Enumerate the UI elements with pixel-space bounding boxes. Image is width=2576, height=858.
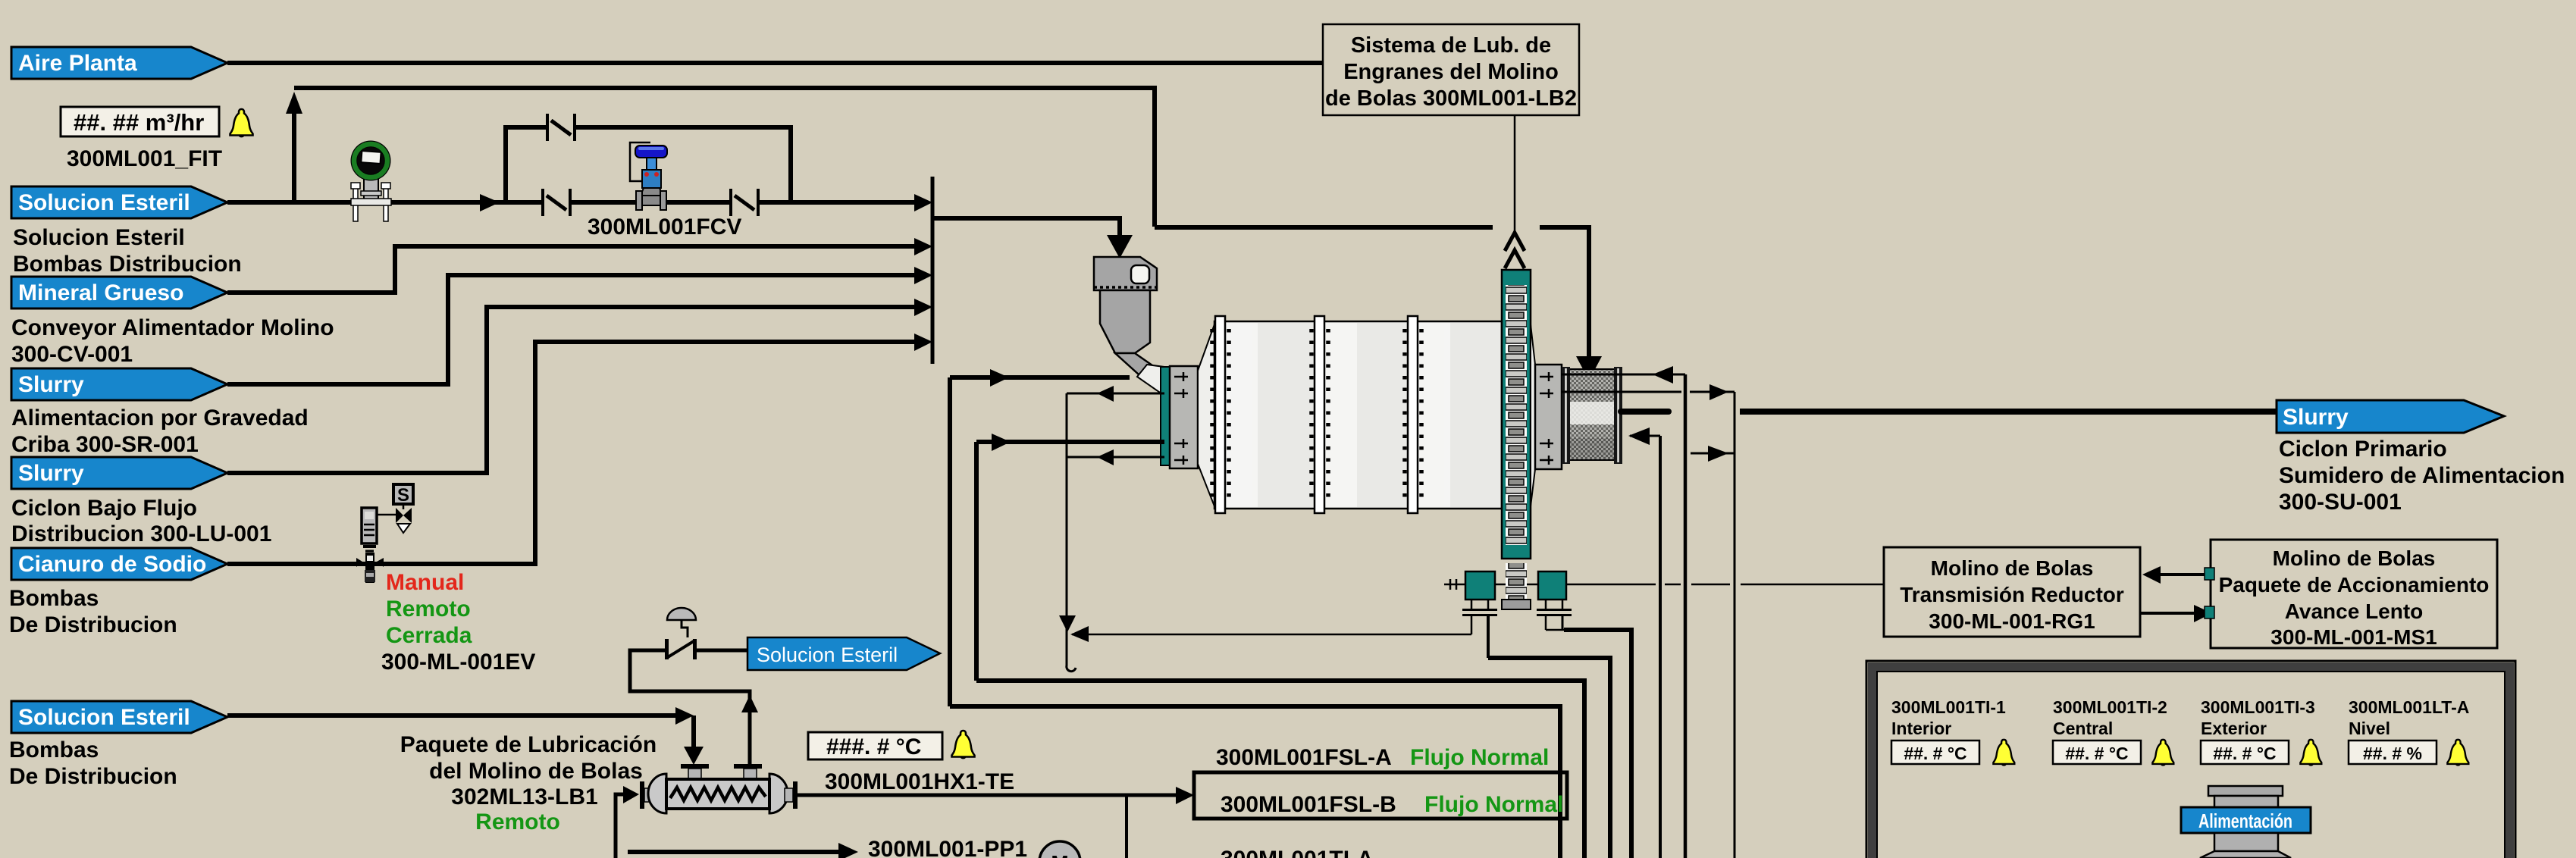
- feed line y498: [950, 375, 1130, 380]
- alarm bell HX1: [952, 731, 975, 759]
- svg-text:de Bolas 300ML001-LB2: de Bolas 300ML001-LB2: [1325, 86, 1577, 111]
- drain arrow down: [1059, 615, 1076, 632]
- arrow RG1 to MS1: [2140, 612, 2194, 615]
- svg-text:Engranes del Molino: Engranes del Molino: [1343, 60, 1559, 84]
- svg-text:300-SU-001: 300-SU-001: [2279, 490, 2402, 515]
- feed line y583: [976, 440, 1164, 444]
- heat exchanger 302ML13-LB1: [640, 764, 798, 813]
- return drop x1407: [1066, 393, 1068, 662]
- svg-text:##. # °C: ##. # °C: [1904, 744, 1966, 763]
- svg-text:Central: Central: [2053, 719, 2113, 738]
- alimentacion trunnion graphic: [2181, 786, 2311, 858]
- manual valve: [665, 608, 697, 659]
- isolation tick main 2: [729, 189, 760, 216]
- svg-text:300ML001_FIT: 300ML001_FIT: [67, 146, 222, 171]
- box RG1: [1884, 547, 2140, 637]
- alarm bell FIT: [230, 109, 253, 137]
- svg-text:Transmisión Reductor: Transmisión Reductor: [1900, 583, 2124, 606]
- svg-text:300-ML-001-MS1: 300-ML-001-MS1: [2270, 625, 2437, 649]
- svg-text:Criba 300-SR-001: Criba 300-SR-001: [11, 432, 199, 457]
- svg-text:Ciclon Primario: Ciclon Primario: [2279, 437, 2447, 462]
- pinion gear: [1502, 563, 1531, 610]
- svg-text:Bombas Distribucion: Bombas Distribucion: [13, 252, 242, 277]
- svg-text:300-ML-001EV: 300-ML-001EV: [381, 650, 535, 675]
- HX outlet loop: [630, 650, 750, 768]
- valve outlet pipe: [696, 649, 747, 653]
- svg-text:Cianuro de Sodio: Cianuro de Sodio: [18, 552, 206, 577]
- svg-text:Paquete de Accionamiento: Paquete de Accionamiento: [2219, 573, 2490, 597]
- svg-text:###. # °C: ###. # °C: [826, 734, 921, 759]
- box MS1: [2211, 540, 2497, 649]
- svg-text:De Distribucion: De Distribucion: [9, 612, 177, 637]
- banner Aire Planta: [11, 47, 227, 79]
- arrow down into trunnion: [1576, 356, 1602, 380]
- svg-text:300ML001TI-1: 300ML001TI-1: [1891, 697, 2006, 717]
- pipe y300 to gear lube: [1155, 225, 1493, 230]
- svg-text:Solucion Esteril: Solucion Esteril: [13, 225, 185, 250]
- feed hopper: [1094, 257, 1164, 396]
- return line y603: [1067, 456, 1164, 459]
- svg-text:S: S: [397, 485, 409, 506]
- mill shell: [1214, 321, 1502, 509]
- pipe y116 header branch: [294, 88, 1155, 227]
- svg-text:Distribucion 300-LU-001: Distribucion 300-LU-001: [11, 521, 271, 546]
- ring gear: [1502, 270, 1531, 559]
- feed pipe to hopper y288: [934, 218, 1120, 236]
- pipe Solucion Esteril main y267: [227, 200, 916, 205]
- label Solucion Esteril lines: [9, 225, 334, 789]
- FSL-B loop: [1194, 772, 1567, 819]
- discharge trommel: [1562, 367, 1622, 464]
- svg-text:Sistema de Lub. de: Sistema de Lub. de: [1351, 33, 1551, 58]
- teal nubs MS1: [2205, 568, 2214, 580]
- banner Solucion Esteril mini: [747, 637, 940, 670]
- pipe Slurry 2: [227, 307, 916, 473]
- svg-text:300ML001HX1-TE: 300ML001HX1-TE: [825, 769, 1014, 794]
- pipe Cianuro de Sodio: [227, 342, 916, 564]
- branch y598: [1691, 452, 1735, 455]
- svg-text:Nivel: Nivel: [2349, 719, 2390, 738]
- flow transmitter instrument: [351, 141, 392, 222]
- svg-text:300-CV-001: 300-CV-001: [11, 342, 133, 367]
- flow arrow on main line: [480, 194, 500, 211]
- motor M: [1039, 841, 1080, 858]
- discharge head: [1531, 324, 1562, 506]
- banner Solucion Esteril: [11, 186, 227, 218]
- svg-text:Remoto: Remoto: [475, 809, 560, 835]
- svg-text:Mineral Grueso: Mineral Grueso: [18, 280, 183, 305]
- return y575: [1630, 435, 1660, 437]
- svg-text:300ML001FSL-A: 300ML001FSL-A: [1216, 745, 1392, 770]
- svg-text:##. ## m³/hr: ##. ## m³/hr: [74, 109, 204, 136]
- svg-text:Remoto: Remoto: [386, 597, 471, 622]
- gearbox right: [1538, 571, 1566, 600]
- svg-text:del Molino de Bolas: del Molino de Bolas: [429, 759, 643, 784]
- svg-text:Paquete de Lubricación: Paquete de Lubricación: [400, 732, 657, 757]
- banner Solucion Esteril 2: [11, 701, 227, 733]
- svg-text:##. # %: ##. # %: [2363, 744, 2422, 763]
- EV status texts: [381, 570, 535, 675]
- svg-text:Solucion Esteril: Solucion Esteril: [757, 643, 898, 666]
- TI-3 group: [2201, 697, 2321, 766]
- slurry destination labels: [2279, 437, 2565, 515]
- banner Slurry 1: [11, 368, 227, 400]
- svg-text:Bombas: Bombas: [9, 737, 99, 762]
- EV valve body: [356, 546, 384, 583]
- svg-text:300ML001FSL-B: 300ML001FSL-B: [1221, 792, 1396, 817]
- TI-1 group: [1891, 697, 2014, 766]
- value box 300ML001_FIT: [61, 107, 219, 136]
- svg-text:Cerrada: Cerrada: [386, 623, 472, 648]
- pump line: [628, 850, 840, 854]
- svg-text:300ML001-PP1: 300ML001-PP1: [868, 837, 1027, 858]
- mill feed head: [1170, 366, 1198, 468]
- supply riser x1288: [974, 442, 979, 681]
- svg-text:Bombas: Bombas: [9, 586, 99, 611]
- svg-text:302ML13-LB1: 302ML13-LB1: [451, 784, 597, 809]
- svg-text:##. # °C: ##. # °C: [2213, 744, 2276, 763]
- run y898: [976, 681, 1584, 858]
- mill flange 1: [1208, 316, 1229, 513]
- banner Slurry right: [2277, 400, 2504, 433]
- svg-text:Exterior: Exterior: [2201, 719, 2267, 738]
- svg-text:Aire Planta: Aire Planta: [18, 51, 137, 76]
- riser x388 with up arrow: [292, 110, 296, 202]
- arrow MS1 to RG1: [2159, 573, 2211, 576]
- lube signal line: [1514, 115, 1516, 230]
- drop x2288: [1734, 392, 1736, 858]
- svg-text:Molino de Bolas: Molino de Bolas: [1931, 556, 2094, 580]
- svg-text:Molino de Bolas: Molino de Bolas: [2273, 546, 2436, 570]
- svg-text:Avance Lento: Avance Lento: [2285, 600, 2424, 623]
- mill feed cone: [1198, 324, 1214, 506]
- couplings: [1462, 600, 1572, 615]
- pipe to FSL-B: [798, 794, 1177, 797]
- coupling drain line y837: [1072, 634, 1471, 636]
- slurry product line y543: [1621, 409, 1669, 415]
- svg-text:Slurry: Slurry: [18, 372, 84, 397]
- svg-text:Flujo Normal: Flujo Normal: [1410, 745, 1549, 770]
- svg-text:Slurry: Slurry: [18, 461, 84, 486]
- svg-text:Sumidero de Alimentacion: Sumidero de Alimentacion: [2279, 463, 2565, 488]
- drop x2223: [1684, 374, 1688, 858]
- return y494: [1562, 374, 1685, 376]
- pinion overlay: [1502, 563, 1531, 610]
- drain hook: [1067, 661, 1076, 672]
- bypass pipe over FCV: [506, 127, 791, 202]
- mill flange 3: [1405, 316, 1421, 513]
- svg-text:300ML001TI-3: 300ML001TI-3: [2201, 697, 2315, 717]
- control valve 300ML001FCV: [630, 142, 667, 210]
- svg-text:Solucion Esteril: Solucion Esteril: [18, 190, 190, 215]
- drive shaft line: [1444, 579, 1884, 590]
- discharge y517: [1562, 391, 1681, 393]
- pipe Slurry 1: [227, 275, 916, 384]
- svg-text:300ML001FCV: 300ML001FCV: [588, 214, 741, 240]
- banner Cianuro de Sodio: [11, 548, 227, 580]
- pipe Aire Planta y83: [227, 61, 1323, 65]
- svg-text:Solucion Esteril: Solucion Esteril: [18, 705, 190, 730]
- gearbox left: [1465, 571, 1495, 600]
- header vertical: [931, 177, 935, 364]
- three-way valve icon: [396, 508, 412, 533]
- supply pipe y944: [227, 713, 677, 718]
- panel frame: [1866, 661, 2515, 858]
- positioner instrument: [362, 508, 396, 543]
- pipe Mineral Grueso: [227, 246, 916, 293]
- svg-text:Manual: Manual: [386, 570, 464, 595]
- run y932: [950, 706, 1560, 858]
- FSL tee drop: [1125, 795, 1128, 858]
- svg-text:300ML001TI-A: 300ML001TI-A: [1221, 847, 1374, 858]
- solenoid S box: [393, 484, 413, 509]
- mill flange 2: [1312, 316, 1328, 513]
- svg-text:M: M: [1051, 851, 1068, 858]
- svg-text:300ML001TI-2: 300ML001TI-2: [2053, 697, 2167, 717]
- lube double chevron: [1505, 233, 1525, 268]
- run y868: [1488, 658, 1610, 858]
- svg-text:Alimentacion por Gravedad: Alimentacion por Gravedad: [11, 406, 309, 431]
- svg-text:Ciclon Bajo Flujo: Ciclon Bajo Flujo: [11, 496, 197, 521]
- svg-text:##. # °C: ##. # °C: [2065, 744, 2128, 763]
- HX inlet riser: [616, 794, 623, 858]
- banner Mineral Grueso: [11, 277, 227, 308]
- return line y519: [1067, 393, 1164, 395]
- coupling drops: [1471, 616, 1473, 634]
- svg-text:Flujo Normal: Flujo Normal: [1424, 792, 1563, 817]
- isolation tick main 1: [541, 189, 572, 216]
- mill feed teal strip: [1161, 367, 1170, 465]
- svg-text:Conveyor Alimentador Molino: Conveyor Alimentador Molino: [11, 315, 334, 340]
- header arrow y267: [914, 194, 932, 211]
- drop into HX: [691, 716, 696, 747]
- svg-text:Alimentación: Alimentación: [2198, 809, 2292, 832]
- box Sistema de Lub: [1323, 24, 1579, 115]
- LT-A group: [2349, 697, 2469, 766]
- lube package label: [400, 732, 657, 835]
- isolation tick bypass: [546, 114, 576, 141]
- supply riser x1253: [948, 377, 952, 706]
- run y831: [1564, 630, 1631, 858]
- drop x2190: [1659, 436, 1662, 858]
- svg-text:De Distribucion: De Distribucion: [9, 764, 177, 789]
- svg-text:Slurry: Slurry: [2283, 405, 2349, 430]
- svg-text:Interior: Interior: [1891, 719, 1951, 738]
- value box HX1-TE: [808, 732, 942, 759]
- banner Slurry 2: [11, 457, 227, 489]
- pipe y300 to trunnion: [1540, 227, 1589, 358]
- svg-text:300-ML-001-RG1: 300-ML-001-RG1: [1929, 609, 2095, 633]
- svg-text:300ML001LT-A: 300ML001LT-A: [2349, 697, 2469, 717]
- TI-2 group: [2053, 697, 2173, 766]
